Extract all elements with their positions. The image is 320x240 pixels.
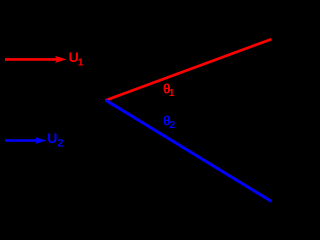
svg-text:U: U	[47, 130, 57, 146]
vector arrow U2	[5, 137, 47, 144]
vector arrow U1	[5, 56, 67, 63]
ray U2 (blue line)	[106, 100, 272, 201]
node vertex	[105, 99, 107, 101]
svg-text:1: 1	[169, 88, 175, 99]
svg-text:2: 2	[169, 119, 175, 131]
ray U1 (red line)	[106, 39, 272, 100]
label theta2	[163, 112, 175, 131]
svg-text:2: 2	[57, 137, 63, 149]
label U2	[47, 130, 63, 149]
svg-text:1: 1	[78, 57, 84, 69]
label U1	[69, 49, 84, 68]
label theta1	[163, 81, 175, 99]
